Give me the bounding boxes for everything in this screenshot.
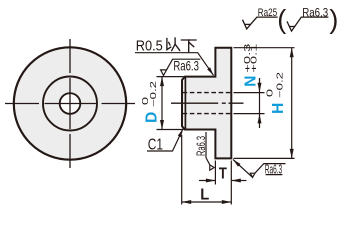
- svg-text:Ra6.3: Ra6.3: [265, 162, 282, 177]
- svg-text:Ra6.3: Ra6.3: [194, 136, 208, 156]
- svg-text:(: (: [277, 5, 286, 35]
- svg-text:D: D: [144, 112, 161, 123]
- svg-text:Ra25: Ra25: [258, 7, 277, 19]
- svg-text:H: H: [270, 103, 287, 114]
- svg-text:Ra6.3: Ra6.3: [173, 57, 199, 73]
- svg-text:N: N: [243, 76, 260, 87]
- svg-text:−0.2: −0.2: [276, 72, 285, 98]
- svg-text:+0.1: +0.1: [249, 43, 258, 73]
- svg-text:C1: C1: [148, 137, 163, 154]
- svg-text:): ): [329, 5, 338, 35]
- svg-text:T: T: [219, 166, 227, 183]
- svg-text:L: L: [200, 187, 209, 204]
- svg-text:Ra6.3: Ra6.3: [302, 7, 328, 19]
- svg-text:−0.2: −0.2: [149, 81, 158, 107]
- svg-text:0: 0: [265, 88, 274, 97]
- svg-text:R0.5: R0.5: [136, 38, 163, 54]
